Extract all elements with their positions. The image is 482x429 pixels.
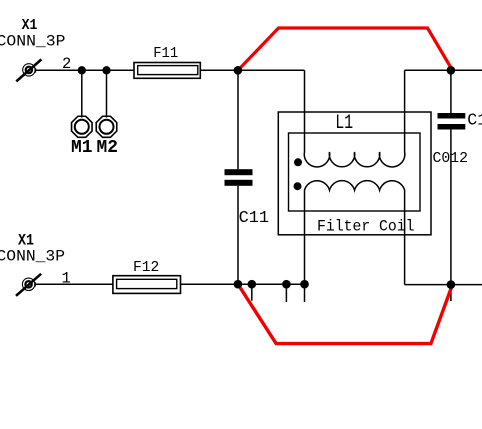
- svg-text:C012: C012: [433, 150, 469, 167]
- svg-text:2: 2: [62, 55, 71, 73]
- svg-text:L1: L1: [335, 112, 353, 135]
- svg-text:F11: F11: [153, 45, 178, 62]
- svg-text:Filter Coil: Filter Coil: [317, 218, 415, 236]
- svg-text:X1: X1: [22, 17, 38, 34]
- svg-text:F12: F12: [133, 260, 159, 276]
- svg-text:CONN_3P: CONN_3P: [0, 248, 65, 266]
- svg-text:CONN_3P: CONN_3P: [0, 33, 66, 51]
- svg-text:C12: C12: [467, 111, 482, 130]
- svg-text:M2: M2: [97, 138, 119, 158]
- svg-text:1: 1: [62, 269, 71, 287]
- svg-text:M1: M1: [71, 138, 93, 158]
- svg-text:C11: C11: [239, 208, 270, 227]
